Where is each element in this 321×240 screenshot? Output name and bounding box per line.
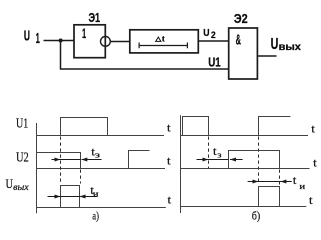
right tз label (213, 146, 222, 159)
left U1 pulse (61, 118, 108, 136)
right dashed line at U2 fall (279, 170, 281, 185)
svg-text:и: и (93, 189, 100, 198)
left U1 time axis (36, 135, 164, 137)
left Uвых pulse (61, 186, 80, 208)
right dashed line at U1 pulse1 fall (208, 137, 210, 169)
left diagram vertical axis (36, 123, 38, 213)
right dashed line at U1 pulse2 rise (258, 137, 260, 185)
left tи dimension arrows (48, 195, 98, 199)
svg-text:2: 2 (211, 30, 216, 40)
right diagram vertical axis (180, 115, 182, 213)
left Uвых row label (6, 176, 29, 192)
svg-text:&: & (236, 32, 241, 48)
svg-text:б): б) (252, 211, 261, 223)
node U2 label (203, 28, 216, 40)
svg-text:1: 1 (36, 31, 40, 47)
left Uвых time axis (36, 207, 166, 209)
svg-text:Э2: Э2 (234, 11, 248, 26)
inversion circle on Э1 output (101, 37, 111, 47)
wire Uвых output (257, 55, 276, 57)
svg-text:1: 1 (82, 25, 86, 41)
delay element box (130, 30, 199, 53)
right tи dimension arrows (248, 180, 292, 184)
svg-text:U1: U1 (16, 116, 28, 131)
wire delay to AND gate, node U2 (198, 40, 228, 42)
right Uвых time axis (180, 206, 306, 208)
right tз dimension arrows (197, 158, 243, 162)
svg-text:а): а) (92, 210, 99, 222)
left tи label (90, 185, 99, 198)
right U1 pulse 2 (259, 117, 291, 136)
svg-text:з: з (217, 150, 221, 159)
right U1 time axis (180, 135, 308, 137)
svg-text:U: U (24, 28, 30, 44)
right U1 pulse 1 (183, 117, 209, 136)
svg-text:вых: вых (279, 42, 302, 53)
node junction on U1 wire (59, 39, 63, 43)
right U2 pulse (229, 151, 280, 169)
left tз label (91, 146, 100, 159)
left dashed line at U2 fall (80, 170, 82, 184)
svg-text:U: U (203, 28, 209, 39)
delta triangle of Δt label (156, 37, 161, 41)
wire feedback U1 to AND gate (61, 41, 229, 70)
right tи label (293, 175, 306, 191)
left U2 second rise (129, 151, 150, 169)
svg-text:U: U (271, 36, 279, 53)
left dashed line at U1 rise (60, 137, 62, 183)
wire Э1 output to delay (110, 41, 130, 43)
right U2 time axis (180, 168, 309, 170)
delay interval symbol inside box (139, 43, 187, 49)
svg-text:U2: U2 (16, 149, 29, 164)
svg-text:з: з (95, 151, 100, 160)
left tз dimension arrows (52, 158, 102, 162)
svg-text:и: и (299, 182, 306, 191)
left U2 waveform high then fall (36, 153, 81, 169)
svg-text:U1: U1 (208, 54, 221, 69)
svg-text:вых: вых (13, 182, 29, 192)
node U1 input label (24, 28, 40, 47)
inverter U1 (element Э1) box (74, 25, 105, 58)
right Uвых pulse (259, 187, 280, 207)
left U2 time axis (36, 168, 165, 170)
svg-text:Э1: Э1 (89, 11, 101, 25)
AND gate (element Э2) box (229, 28, 258, 79)
node Uвых output label (271, 36, 302, 53)
wire U1 input (44, 40, 75, 42)
